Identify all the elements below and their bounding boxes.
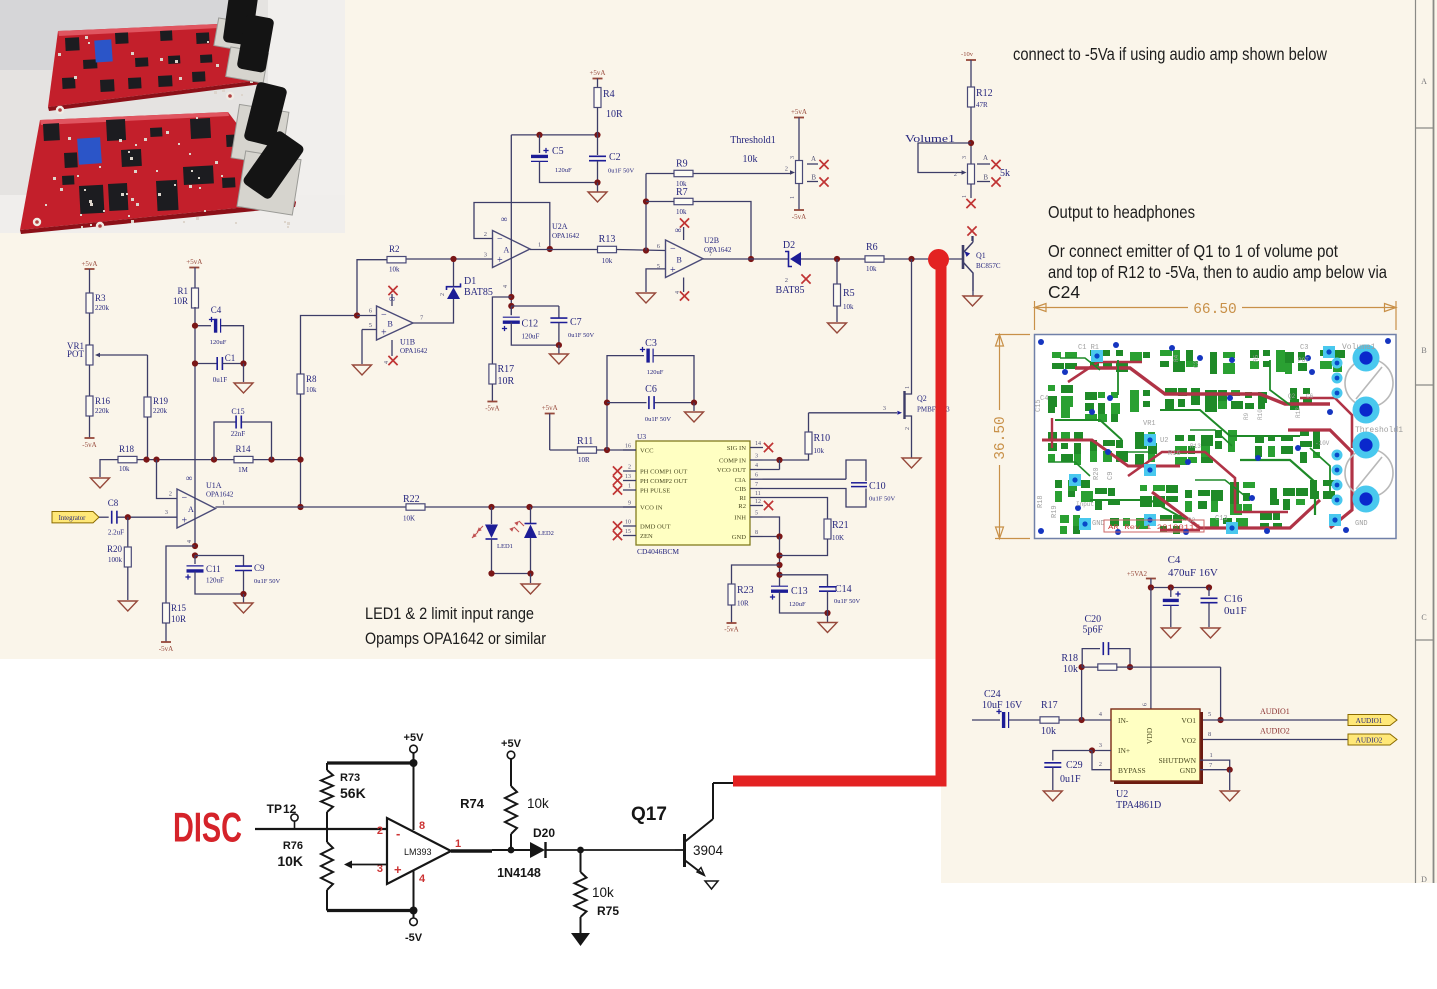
wire pin4 — [413, 871, 415, 911]
svg-text:A: A — [1421, 77, 1427, 86]
wire — [194, 307, 196, 308]
resistor R19 — [144, 396, 169, 417]
resistor R12 — [968, 87, 993, 109]
svg-text:CIA: CIA — [735, 477, 747, 484]
svg-text:R5: R5 — [843, 288, 855, 299]
svg-text:0u1F 50V: 0u1F 50V — [608, 168, 634, 175]
capacitor C6 — [607, 384, 697, 423]
svg-text:Q17: Q17 — [631, 804, 667, 825]
svg-text:Volume1: Volume1 — [1342, 343, 1376, 352]
svg-text:3: 3 — [165, 509, 168, 516]
svg-text:-10V: -10V — [1315, 440, 1330, 447]
svg-text:SHUTDWN: SHUTDWN — [1159, 756, 1197, 765]
wire U1B out — [413, 299, 454, 323]
svg-text:0u1F: 0u1F — [1060, 774, 1081, 785]
ground (R20) — [118, 567, 137, 611]
resistor R14 — [234, 444, 253, 474]
capacitor C13 — [770, 586, 831, 616]
svg-text:1: 1 — [905, 386, 911, 389]
wire IN+ / BYPASS — [1089, 742, 1111, 770]
PCB cyan pads — [1069, 346, 1343, 534]
svg-text:A: A — [504, 246, 510, 255]
wire pin6 U1B — [357, 308, 377, 316]
svg-text:4: 4 — [755, 463, 758, 469]
power -5vA (R23) — [724, 605, 738, 634]
wire pin2 U1A — [157, 460, 178, 499]
capacitor C24 — [972, 689, 1040, 728]
svg-text:-10v: -10v — [961, 51, 974, 58]
svg-text:10k: 10k — [843, 303, 854, 311]
wire SHUTDWN/GND — [1200, 752, 1233, 790]
svg-text:R17: R17 — [498, 364, 515, 375]
ground (U2 GND) — [1220, 791, 1239, 801]
svg-text:22nF: 22nF — [231, 430, 246, 438]
svg-text:8: 8 — [419, 820, 425, 832]
svg-text:C9: C9 — [254, 563, 265, 573]
wire +5vA rail (R4) — [511, 132, 600, 138]
wire bottom rail — [327, 907, 418, 915]
wire IN- — [1059, 711, 1111, 723]
svg-text:VO2: VO2 — [1181, 736, 1196, 745]
svg-text:D: D — [1421, 875, 1427, 884]
svg-text:C: C — [1421, 613, 1426, 622]
svg-text:R12: R12 — [976, 88, 993, 99]
note opamps — [365, 630, 546, 648]
svg-text:PH PULSE: PH PULSE — [640, 488, 670, 495]
svg-text:2: 2 — [628, 465, 631, 471]
note or-connect — [1048, 241, 1387, 302]
resistor R74 — [460, 786, 549, 850]
resistor R23 — [728, 565, 780, 608]
no-connect X (U1B pin4) — [384, 340, 398, 365]
wire U1A supply — [194, 307, 196, 546]
svg-text:C13: C13 — [1215, 515, 1228, 523]
svg-text:R4: R4 — [603, 89, 615, 100]
svg-text:LED2: LED2 — [538, 530, 554, 537]
power +5vA (R3) — [81, 260, 97, 293]
wire LM393 out — [451, 847, 530, 854]
svg-text:0u1F 50V: 0u1F 50V — [834, 598, 860, 605]
svg-text:PH COMP2 OUT: PH COMP2 OUT — [640, 478, 687, 485]
svg-text:AUDIO2: AUDIO2 — [1260, 727, 1290, 736]
svg-text:R18: R18 — [1061, 653, 1078, 664]
ground (C4) — [1161, 628, 1180, 638]
svg-text:R6: R6 — [866, 242, 878, 253]
svg-text:R20: R20 — [107, 544, 123, 554]
frame border — [1416, 0, 1434, 884]
svg-text:10R: 10R — [173, 296, 188, 306]
PCB dimension 36.50 — [993, 335, 1030, 539]
svg-text:3: 3 — [1099, 742, 1102, 749]
svg-text:IN-: IN- — [1118, 716, 1129, 725]
svg-text:+5V: +5V — [404, 732, 425, 744]
svg-text:10K: 10K — [832, 534, 844, 542]
capacitor C11 — [185, 556, 224, 585]
svg-text:POT: POT — [67, 349, 85, 359]
svg-text:Input: Input — [1076, 501, 1094, 508]
svg-text:+5vA: +5vA — [791, 108, 807, 116]
svg-text:AUDIO1: AUDIO1 — [1356, 717, 1383, 725]
wire D2-R6 — [801, 256, 865, 262]
svg-text:C4: C4 — [1168, 554, 1181, 566]
wire — [488, 570, 533, 583]
svg-text:12: 12 — [755, 499, 761, 505]
svg-text:Q2: Q2 — [917, 394, 927, 403]
wire R9-threshold — [694, 166, 796, 175]
svg-text:10R: 10R — [498, 376, 515, 387]
wire U2A feedback — [474, 203, 553, 253]
svg-text:15: 15 — [625, 529, 631, 535]
PCB green pads — [1048, 350, 1345, 534]
power -5vA (R16) — [82, 416, 96, 449]
svg-text:DISC: DISC — [173, 804, 242, 851]
svg-text:0u1F: 0u1F — [213, 376, 228, 384]
wire — [780, 454, 809, 460]
ground (U1B pin5) — [353, 365, 372, 375]
power +5vA (R11) — [542, 404, 558, 450]
transistor Q2 PMBF4393 — [809, 380, 951, 455]
ground (LEDs) — [521, 584, 540, 594]
svg-text:2: 2 — [377, 825, 383, 837]
wire VO1-AUDIO1 — [1203, 707, 1348, 720]
wire — [89, 365, 91, 396]
svg-text:∞: ∞ — [186, 473, 192, 483]
svg-text:Threshold1: Threshold1 — [730, 135, 776, 146]
note LED1&2 — [365, 605, 534, 623]
svg-text:U2: U2 — [1160, 437, 1168, 445]
wire — [297, 394, 303, 510]
resistor R3 — [86, 293, 110, 313]
svg-text:47R: 47R — [976, 101, 988, 109]
svg-text:R9: R9 — [1243, 412, 1250, 420]
svg-text:CD4046BCM: CD4046BCM — [637, 547, 679, 556]
svg-text:A: A — [188, 505, 194, 514]
svg-text:∞: ∞ — [501, 214, 507, 224]
svg-text:B: B — [811, 174, 816, 182]
svg-text:+: + — [670, 265, 676, 276]
svg-text:1: 1 — [455, 838, 461, 850]
svg-text:GND: GND — [1092, 520, 1105, 528]
svg-text:2: 2 — [954, 171, 957, 178]
svg-text:3: 3 — [883, 405, 886, 412]
no-connect X (Q1 emitter) — [967, 226, 976, 241]
svg-text:−: − — [497, 234, 503, 245]
svg-text:ZEN: ZEN — [640, 533, 653, 540]
photo background — [0, 0, 345, 233]
wire — [147, 355, 149, 397]
resistor R1 — [173, 286, 199, 308]
svg-text:1M: 1M — [238, 466, 249, 474]
power +5V (R74) — [501, 738, 522, 786]
svg-text:VO1: VO1 — [1181, 716, 1196, 725]
svg-text:C15: C15 — [231, 407, 244, 416]
svg-text:1: 1 — [790, 196, 796, 199]
svg-text:C6: C6 — [1306, 393, 1314, 400]
capacitor C5 — [531, 135, 598, 183]
svg-text:U2B: U2B — [704, 236, 719, 245]
op-amp U2A — [484, 214, 580, 288]
svg-text:LED1: LED1 — [497, 543, 513, 550]
wire red link — [733, 259, 941, 781]
svg-text:C7: C7 — [570, 317, 582, 328]
svg-text:R13: R13 — [1190, 443, 1201, 450]
capacitor C4 (audio) — [1163, 554, 1218, 627]
svg-text:R5: R5 — [1253, 354, 1260, 362]
wire VCO IN net — [216, 504, 637, 510]
svg-text:AR Rev 1 20190117: AR Rev 1 20190117 — [1108, 524, 1200, 531]
no-connect X (U2B pin4) — [675, 278, 689, 301]
wire — [597, 108, 599, 135]
svg-text:TPA4861D: TPA4861D — [1116, 800, 1161, 811]
svg-text:C9: C9 — [1107, 472, 1115, 480]
capacitor C12 — [502, 306, 559, 345]
PCB image backdrop — [1035, 335, 1397, 539]
svg-text:C1 R1: C1 R1 — [1078, 344, 1099, 352]
capacitor C16 — [1201, 588, 1247, 628]
svg-text:OPA1642: OPA1642 — [552, 232, 580, 240]
wire — [89, 313, 91, 345]
svg-text:2: 2 — [785, 277, 788, 284]
svg-text:C12: C12 — [522, 319, 539, 330]
power -5vA (R15) — [159, 623, 173, 653]
svg-text:R4: R4 — [1173, 354, 1180, 362]
svg-text:10R: 10R — [606, 109, 623, 120]
svg-text:R2: R2 — [389, 244, 400, 254]
power -5vA (R17) — [485, 384, 499, 413]
svg-text:10k: 10k — [814, 447, 825, 455]
ground (C12/C7) — [549, 345, 568, 364]
LED LED1 — [472, 507, 513, 574]
svg-text:7: 7 — [755, 482, 758, 488]
note connect — [1013, 44, 1327, 64]
PCB traces — [1042, 358, 1352, 530]
svg-text:56K: 56K — [340, 785, 366, 801]
svg-text:LED1 & 2 limit input range: LED1 & 2 limit input range — [365, 605, 534, 623]
wire pin3 wiper — [344, 861, 387, 869]
capacitor C1 — [192, 353, 247, 384]
svg-text:R18: R18 — [119, 444, 135, 454]
svg-text:220k: 220k — [95, 304, 110, 312]
svg-text:-5vA: -5vA — [82, 441, 96, 449]
svg-text:10K: 10K — [277, 853, 303, 869]
svg-text:A: A — [983, 154, 988, 162]
wire U2A out — [530, 249, 598, 251]
svg-text:POT: POT — [1298, 357, 1309, 364]
diode D1 BAT85 — [440, 259, 493, 299]
wire — [617, 247, 666, 253]
svg-text:OPA1642: OPA1642 — [400, 347, 428, 355]
svg-text:CIB: CIB — [735, 486, 747, 493]
svg-text:AUDIO1: AUDIO1 — [1260, 707, 1290, 716]
svg-text:R76: R76 — [283, 840, 303, 852]
resistor R16 — [86, 396, 111, 416]
net label AUDIO1 — [1348, 715, 1397, 726]
svg-text:C15: C15 — [1035, 399, 1043, 412]
svg-text:14: 14 — [755, 441, 761, 447]
svg-text:0u1F 50V: 0u1F 50V — [645, 416, 671, 423]
svg-text:100k: 100k — [108, 556, 123, 564]
svg-text:2.2uF: 2.2uF — [108, 529, 124, 537]
resistor R11 — [550, 436, 597, 464]
svg-text:Integrator: Integrator — [59, 515, 87, 522]
svg-text:3: 3 — [962, 156, 968, 159]
photo bottom PCB — [20, 112, 296, 234]
no-connect A (Threshold1) — [807, 155, 829, 169]
svg-text:C24: C24 — [1048, 282, 1080, 302]
svg-text:GND: GND — [732, 534, 747, 541]
svg-text:C16: C16 — [1224, 593, 1243, 605]
svg-text:220k: 220k — [153, 407, 168, 415]
power +5vA (R4) — [589, 69, 605, 88]
wire VDD pin6 — [1142, 588, 1151, 710]
ground (C2) — [588, 183, 607, 203]
net label AUDIO2 — [1348, 734, 1397, 745]
ground (C6) — [685, 403, 704, 422]
svg-text:0u1F: 0u1F — [1224, 605, 1247, 617]
no-connect B (Threshold1) — [807, 174, 829, 187]
svg-text:INH: INH — [734, 515, 746, 522]
op-amp LM393 — [377, 818, 461, 885]
svg-text:Q2: Q2 — [1288, 393, 1296, 400]
resistor R73 — [321, 763, 366, 829]
diode D20 1N4148 — [497, 826, 555, 880]
wire U2B out — [703, 258, 788, 260]
wire DISC input — [255, 828, 387, 830]
svg-text:C2: C2 — [1193, 360, 1200, 368]
svg-text:BAT85: BAT85 — [464, 287, 493, 298]
resistor R8 — [297, 374, 317, 394]
svg-text:8: 8 — [1208, 731, 1211, 738]
svg-text:D20: D20 — [533, 826, 555, 840]
svg-text:R20: R20 — [1093, 467, 1101, 480]
resistor R13 — [598, 234, 617, 265]
wire — [597, 447, 637, 453]
svg-text:COMP IN: COMP IN — [719, 458, 746, 465]
svg-text:VCO IN: VCO IN — [640, 505, 663, 512]
svg-text:C5: C5 — [552, 146, 564, 157]
wire — [100, 460, 118, 477]
wire VO2-AUDIO2 — [1203, 727, 1348, 740]
svg-text:D2: D2 — [783, 240, 795, 251]
svg-text:VDD: VDD — [1145, 727, 1154, 744]
svg-text:3: 3 — [484, 252, 487, 259]
svg-text:13: 13 — [625, 474, 631, 480]
wire U2A supply — [508, 135, 514, 315]
wire C20-VO1 — [1117, 667, 1224, 723]
resistor R4 — [594, 88, 623, 121]
capacitor C20 — [1082, 614, 1133, 670]
svg-text:36.50: 36.50 — [993, 416, 1009, 460]
svg-text:1N4148: 1N4148 — [497, 866, 541, 880]
svg-text:C13: C13 — [791, 586, 808, 597]
svg-text:5: 5 — [369, 322, 372, 329]
ground (R18) — [91, 478, 110, 488]
svg-text:10k: 10k — [306, 386, 317, 394]
svg-text:2: 2 — [169, 491, 172, 498]
PCB connector pads — [1353, 345, 1380, 513]
svg-text:C10: C10 — [869, 481, 886, 492]
svg-text:10k: 10k — [866, 265, 877, 273]
svg-text:9: 9 — [628, 501, 631, 507]
svg-text:+: + — [394, 862, 402, 877]
wire pin3 U1A — [118, 514, 178, 520]
svg-text:R13: R13 — [599, 234, 616, 245]
svg-text:R9: R9 — [676, 159, 688, 170]
svg-text:U3: U3 — [637, 432, 646, 441]
svg-text:R22: R22 — [403, 494, 420, 505]
svg-text:-: - — [396, 826, 400, 841]
resistor R15 — [163, 546, 196, 624]
svg-text:LM393: LM393 — [404, 847, 432, 857]
ground (Q2) — [902, 455, 921, 468]
svg-text:+5V: +5V — [501, 738, 522, 750]
wire R18-R14 net — [137, 457, 301, 463]
photo bottom trimmer — [77, 137, 102, 165]
resistor R20 — [107, 517, 131, 567]
svg-text:BYPASS: BYPASS — [1118, 766, 1146, 775]
wire pin8 — [413, 763, 415, 830]
svg-text:C24: C24 — [984, 689, 1001, 700]
svg-text:3: 3 — [790, 156, 796, 159]
svg-text:R8: R8 — [306, 374, 317, 384]
svg-text:+5vA: +5vA — [186, 258, 202, 266]
op-amp U2B — [657, 225, 732, 278]
svg-text:R74: R74 — [460, 796, 485, 811]
svg-text:U1A: U1A — [206, 481, 222, 490]
svg-text:8: 8 — [755, 530, 758, 536]
svg-text:OPA1642: OPA1642 — [206, 491, 234, 499]
wire +5VA2 rail — [1148, 584, 1212, 590]
svg-text:11: 11 — [755, 491, 761, 497]
resistor R17 (audio) — [1040, 700, 1059, 737]
wire — [147, 417, 149, 460]
capacitor C10 — [763, 460, 895, 507]
svg-text:SIG IN: SIG IN — [727, 445, 746, 452]
svg-text:2: 2 — [905, 427, 911, 430]
svg-text:220k: 220k — [95, 407, 110, 415]
wire Q2 drain — [911, 259, 913, 380]
wire D20-Q17 — [546, 847, 676, 854]
svg-text:-5vA: -5vA — [485, 405, 499, 413]
photo top PCB ICs — [62, 30, 212, 92]
svg-text:2: 2 — [484, 231, 487, 238]
svg-text:1: 1 — [962, 195, 968, 198]
capacitor C3 — [604, 338, 694, 450]
svg-text:4: 4 — [384, 361, 390, 364]
svg-text:5: 5 — [1208, 711, 1211, 718]
wire R6-Q1 — [884, 256, 963, 262]
photo bottom PCB ICs — [43, 118, 259, 214]
svg-text:R19: R19 — [1051, 505, 1059, 518]
svg-text:R21: R21 — [832, 520, 849, 531]
svg-text:DMD OUT: DMD OUT — [640, 524, 671, 531]
svg-text:120uF: 120uF — [789, 601, 806, 608]
svg-text:120uF: 120uF — [206, 577, 224, 585]
svg-text:B: B — [388, 320, 393, 329]
node red dot — [928, 249, 949, 270]
resistor R5 — [834, 259, 855, 311]
resistor R76 — [277, 829, 333, 911]
svg-text:U2: U2 — [1116, 789, 1128, 800]
svg-text:C3: C3 — [1300, 344, 1308, 352]
ground (R5) — [828, 306, 847, 333]
svg-text:R16: R16 — [1168, 450, 1181, 458]
resistor R18 — [118, 444, 137, 473]
net label Integrator — [52, 512, 109, 523]
svg-text:-5vA: -5vA — [724, 626, 738, 634]
svg-text:5k: 5k — [1000, 168, 1010, 179]
svg-text:R7: R7 — [676, 187, 688, 198]
